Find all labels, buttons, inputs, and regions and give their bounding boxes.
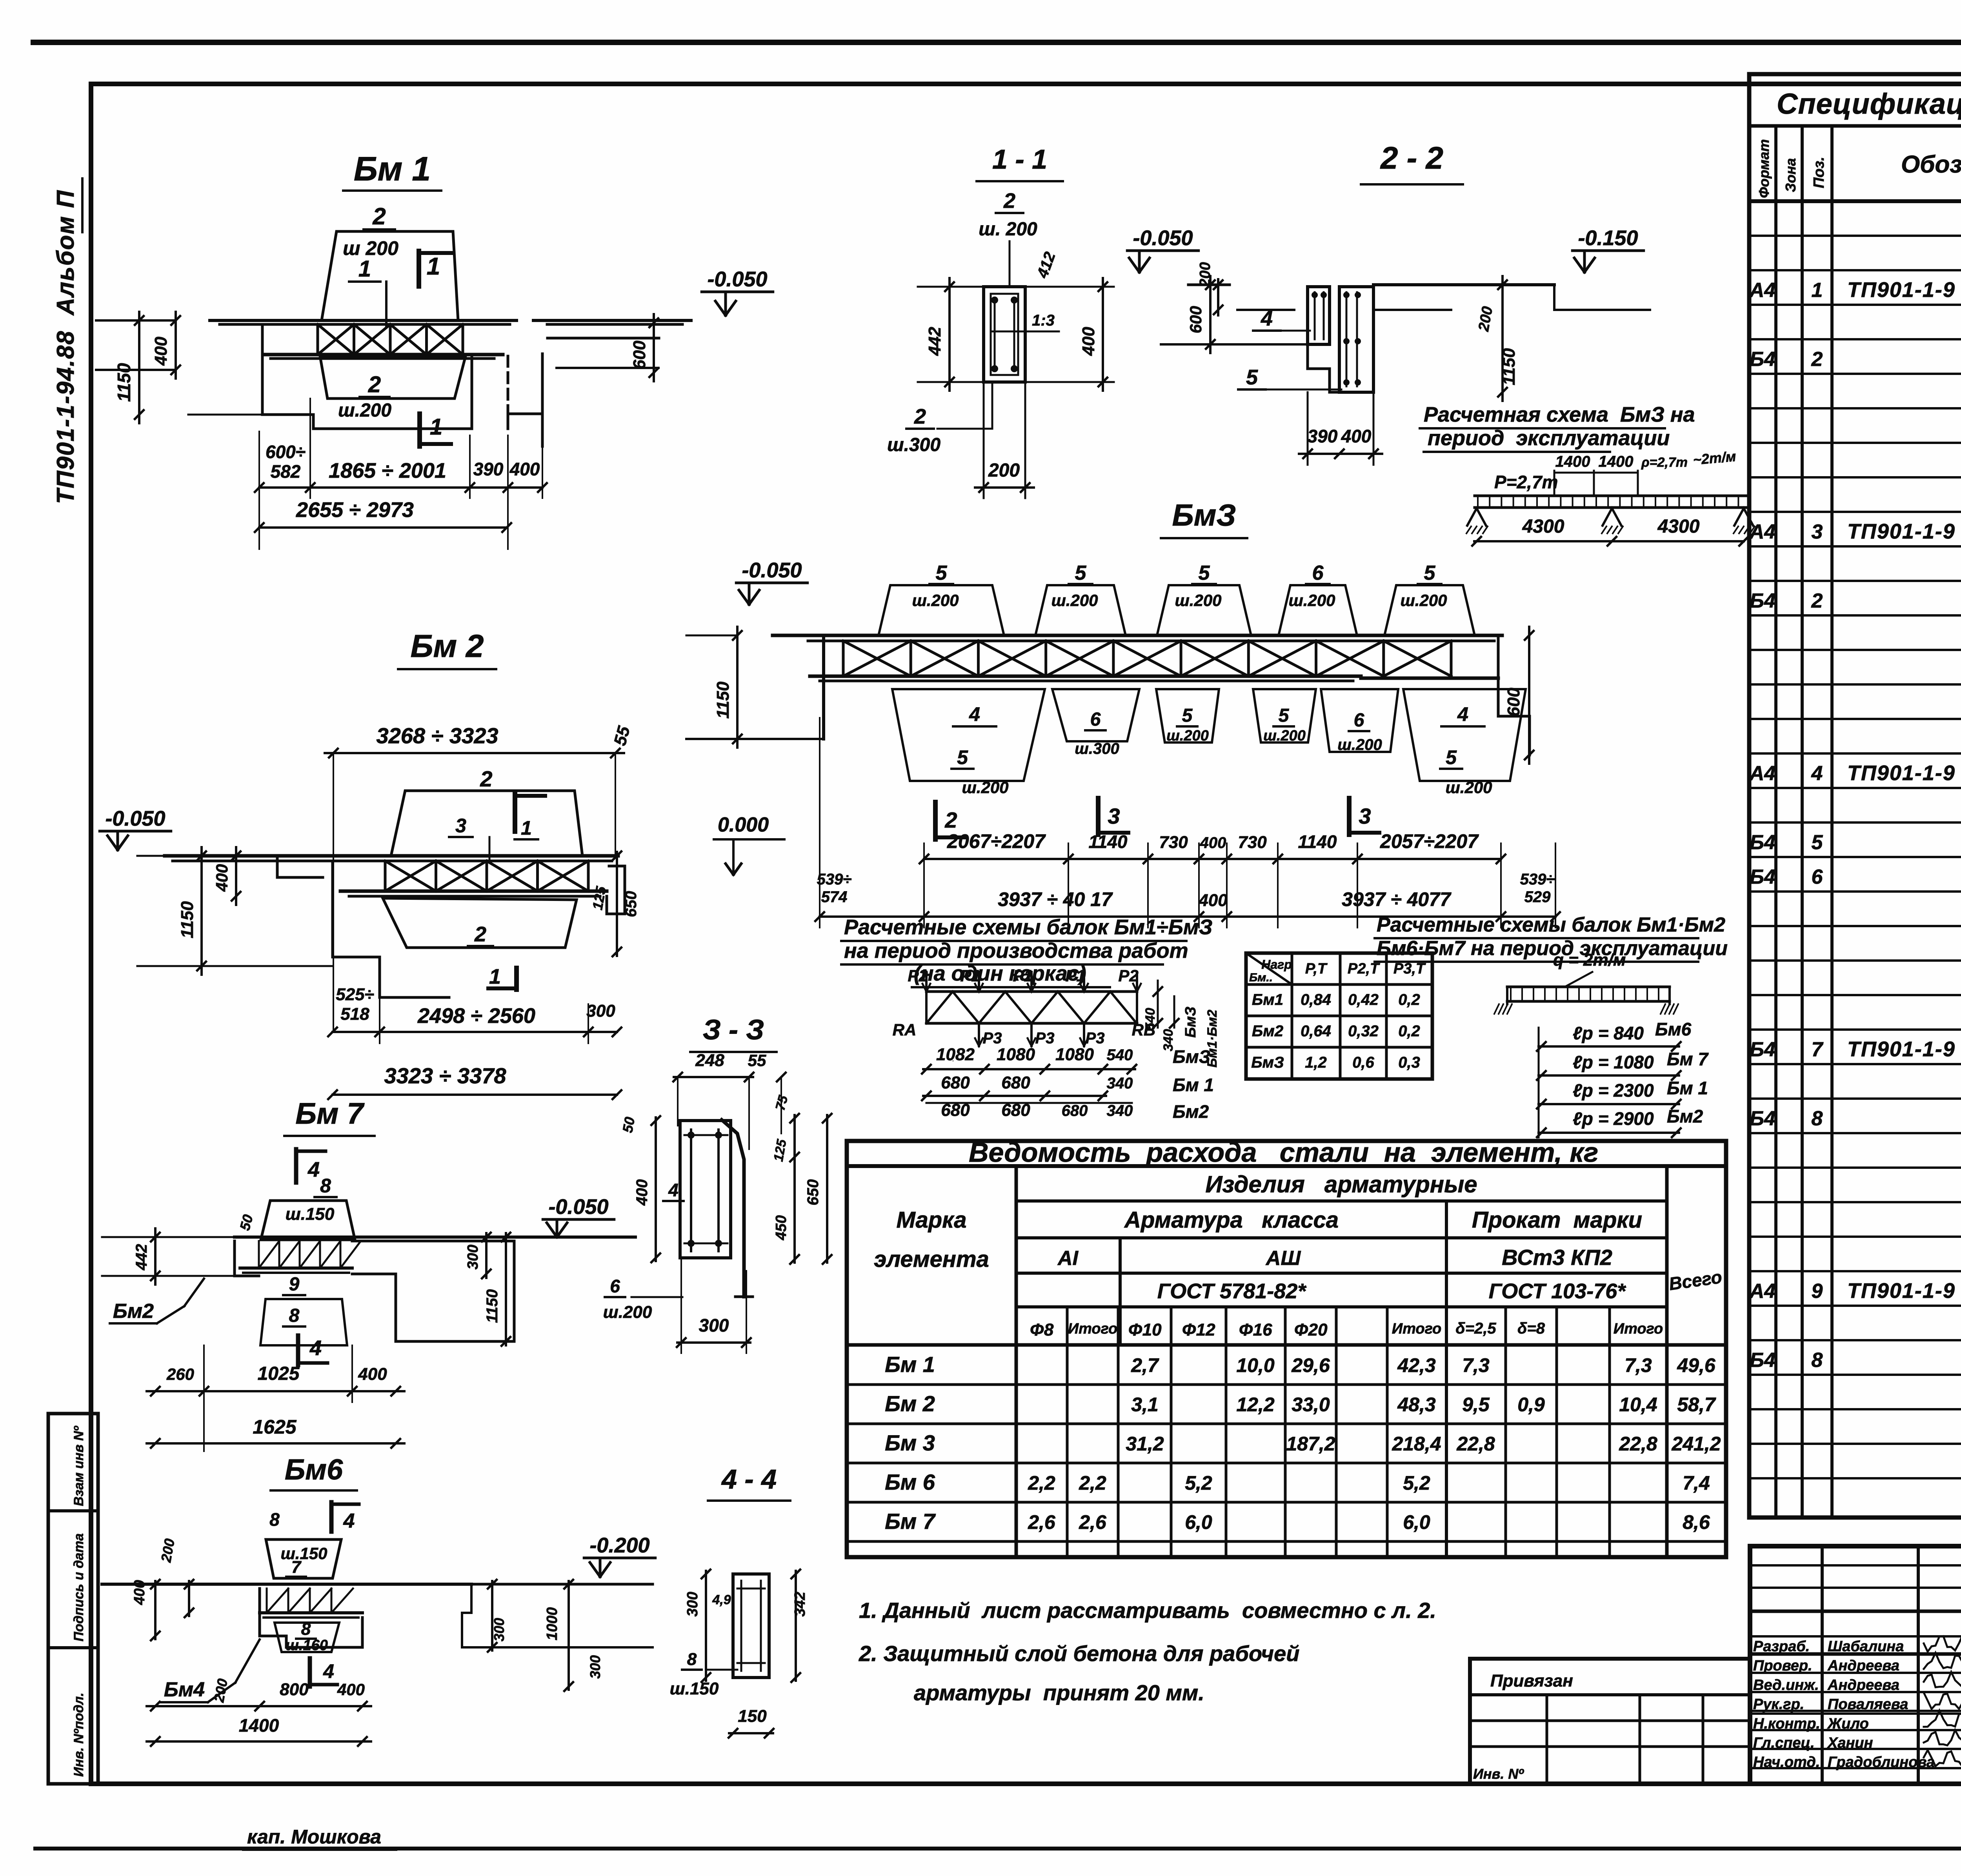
svg-text:Р2: Р2 (908, 966, 928, 985)
svg-text:Б4: Б4 (1750, 831, 1775, 854)
svg-text:4: 4 (1457, 703, 1468, 725)
svg-text:125: 125 (771, 1138, 789, 1163)
svg-text:6: 6 (610, 1276, 620, 1296)
svg-text:2: 2 (1811, 348, 1823, 371)
svg-text:5: 5 (1182, 705, 1193, 726)
svg-text:Градоблинова: Градоблинова (1828, 1754, 1935, 1770)
svg-text:Формат: Формат (1756, 139, 1772, 198)
svg-text:49,6: 49,6 (1677, 1354, 1716, 1376)
section 1-1 dim 442 left (948, 278, 951, 391)
svg-text:Бм 1: Бм 1 (885, 1352, 935, 1377)
svg-text:ВСт3 КП2: ВСт3 КП2 (1502, 1245, 1612, 1270)
svg-text:ℓр = 2900: ℓр = 2900 (1573, 1108, 1654, 1129)
section 3-3 top dims (674, 1076, 753, 1078)
svg-text:340: 340 (1107, 1075, 1133, 1092)
Бм7 right slab (352, 1240, 514, 1243)
svg-text:Бм 1: Бм 1 (1667, 1078, 1708, 1098)
specification header bottom line (1749, 199, 1961, 203)
section 3-3 bottom dim 300 (677, 1341, 750, 1344)
Бм2 top dim 3268-3323 (325, 752, 624, 754)
svg-text:Бм6: Бм6 (285, 1453, 343, 1486)
svg-text:42,3: 42,3 (1397, 1354, 1436, 1376)
svg-text:200: 200 (158, 1538, 178, 1564)
svg-text:400: 400 (1079, 327, 1098, 356)
svg-text:241,2: 241,2 (1671, 1433, 1721, 1455)
section 3-3 rect outline (680, 1121, 731, 1258)
svg-text:Ведомость расхода стали на: Ведомость расхода стали на элемент, кг (969, 1137, 1598, 1168)
Бм3 lower callout 5 sh200 left-mid (1156, 689, 1219, 742)
svg-text:ТП901-1-9 82-КЖИ1-С4: ТП901-1-9 82-КЖИ1-С4 (1847, 278, 1961, 302)
Бм2 lower callout trapezoid (383, 898, 577, 948)
svg-text:3268 ÷ 3323: 3268 ÷ 3323 (376, 723, 498, 748)
svg-text:342: 342 (792, 1592, 808, 1616)
svg-text:5: 5 (1246, 366, 1258, 389)
svg-text:400: 400 (358, 1365, 387, 1384)
specification table title row line (1749, 124, 1961, 128)
svg-text:1625: 1625 (253, 1416, 297, 1438)
svg-text:Бм 1: Бм 1 (354, 150, 431, 188)
svg-text:1,2: 1,2 (1305, 1054, 1327, 1071)
svg-text:Андреева: Андреева (1827, 1677, 1899, 1693)
svg-text:Шабалина: Шабалина (1828, 1638, 1904, 1655)
Бм2 truss diagonals (385, 861, 436, 891)
svg-text:-0.050: -0.050 (707, 267, 767, 291)
svg-text:2 - 2: 2 - 2 (1380, 140, 1443, 175)
section 2-2 right dims 200 1150 (1501, 276, 1504, 401)
svg-text:Бм6: Бм6 (1655, 1019, 1692, 1039)
svg-text:Н.контр.: Н.контр. (1753, 1716, 1820, 1732)
svg-text:Р2: Р2 (1118, 966, 1138, 985)
svg-text:1: 1 (489, 965, 501, 988)
svg-text:10,0: 10,0 (1236, 1354, 1275, 1376)
svg-text:Р2,Т: Р2,Т (1348, 961, 1380, 977)
svg-text:~2т/м: ~2т/м (1692, 448, 1737, 468)
Бм7 small truss bars (258, 1241, 260, 1268)
svg-text:Взам инв Nº: Взам инв Nº (71, 1426, 86, 1506)
load table column lines (1291, 953, 1293, 1079)
svg-text:А4: А4 (1749, 279, 1776, 302)
svg-text:Бм6·Бм7 на период эксплуатации: Бм6·Бм7 на период эксплуатации (1377, 937, 1728, 960)
svg-text:5: 5 (1075, 562, 1087, 584)
svg-text:Всего: Всего (1668, 1266, 1723, 1294)
svg-text:600÷: 600÷ (266, 442, 306, 462)
section 2-2 columns outline (1308, 287, 1330, 344)
svg-text:ТП901-1-9 88-КЖИ1-С8: ТП901-1-9 88-КЖИ1-С8 (1847, 1279, 1961, 1303)
svg-text:300: 300 (586, 1001, 615, 1021)
svg-text:3: 3 (1359, 804, 1371, 828)
Бм6 small truss bars (266, 1589, 268, 1613)
svg-text:Φ12: Φ12 (1182, 1320, 1215, 1339)
svg-text:3937 ÷ 40 17: 3937 ÷ 40 17 (998, 888, 1113, 910)
svg-text:22,8: 22,8 (1619, 1433, 1657, 1455)
svg-text:442: 442 (925, 327, 944, 356)
svg-text:Итого: Итого (1392, 1321, 1441, 1337)
Бм1 section mark 1 bottom (417, 414, 422, 446)
svg-text:Р3: Р3 (1035, 1030, 1055, 1047)
svg-text:3: 3 (1108, 804, 1120, 828)
svg-text:(на один каркас): (на один каркас) (914, 962, 1086, 985)
svg-text:600: 600 (1504, 688, 1523, 717)
svg-text:ℓр = 1080: ℓр = 1080 (1573, 1052, 1654, 1072)
svg-text:Φ8: Φ8 (1030, 1320, 1054, 1339)
svg-text:ш.200: ш.200 (1175, 591, 1221, 610)
svg-text:539÷: 539÷ (1520, 871, 1555, 888)
svg-text:8,6: 8,6 (1683, 1511, 1710, 1533)
Бм1 left dim 1150 (138, 312, 140, 423)
svg-text:Р3: Р3 (983, 1030, 1002, 1047)
svg-text:800: 800 (280, 1680, 309, 1699)
svg-text:на период производства работ: на период производства работ (844, 939, 1188, 963)
svg-text:6: 6 (1812, 866, 1823, 888)
svg-text:400: 400 (1200, 834, 1226, 852)
svg-text:БмЗ: БмЗ (1173, 1046, 1210, 1067)
svg-text:А4: А4 (1749, 762, 1776, 785)
Бм2 right end outline (607, 866, 625, 914)
svg-text:БмЗ: БмЗ (1172, 498, 1236, 532)
svg-text:33,0: 33,0 (1292, 1394, 1330, 1416)
svg-text:8: 8 (269, 1509, 280, 1530)
svg-text:кап. Мошкова: кап. Мошкова (247, 1826, 381, 1848)
svg-text:5,2: 5,2 (1403, 1472, 1430, 1494)
svg-text:9,5: 9,5 (1462, 1394, 1490, 1416)
svg-text:Р1: Р1 (1065, 966, 1085, 985)
svg-text:2: 2 (368, 372, 381, 397)
section 4-4 rect outline (733, 1574, 769, 1678)
svg-text:4: 4 (969, 703, 980, 725)
svg-text:Р,Т: Р,Т (1305, 961, 1328, 977)
privyazan sub-table lines (1470, 1693, 1750, 1696)
svg-text:540: 540 (1107, 1046, 1133, 1064)
svg-text:4,9: 4,9 (712, 1592, 731, 1607)
svg-text:ш.200: ш.200 (1263, 728, 1306, 744)
svg-text:1080: 1080 (997, 1045, 1035, 1064)
svg-text:4: 4 (1811, 762, 1823, 785)
Бм1 slab top lines (210, 319, 517, 322)
svg-text:Бм 7: Бм 7 (885, 1509, 936, 1534)
Бм1 bottom overall dim 2655-2973 (259, 526, 507, 529)
Бм1 pit right outline (508, 414, 542, 429)
specification row grid lines (1749, 235, 1961, 237)
svg-text:4: 4 (1261, 307, 1273, 330)
svg-text:1400: 1400 (239, 1715, 279, 1736)
bottom-left stamp column table (48, 1414, 98, 1784)
svg-text:6,0: 6,0 (1185, 1511, 1212, 1533)
Бм6 upper callout trapezoid (266, 1539, 341, 1578)
Бм3 bottom dims row 1 (924, 858, 1501, 860)
Бм6 section outline (260, 1589, 362, 1647)
svg-text:-0.200: -0.200 (589, 1534, 649, 1557)
svg-text:6: 6 (1354, 710, 1364, 731)
svg-text:ш.200: ш.200 (1445, 778, 1492, 797)
Бм3 lower callout big right with pos 4 and 5 (1403, 689, 1526, 781)
Бм1 upper callout trapezoid (322, 231, 458, 320)
Бм6 right slab (462, 1584, 653, 1647)
section 2-2 dim 600 left (1209, 276, 1212, 353)
calc truss load arrows top (925, 972, 928, 992)
svg-text:Бм1: Бм1 (1252, 991, 1283, 1008)
svg-text:730: 730 (1238, 833, 1267, 852)
svg-text:55: 55 (748, 1051, 766, 1070)
svg-text:2498 ÷ 2560: 2498 ÷ 2560 (417, 1004, 535, 1028)
svg-text:8: 8 (1812, 1349, 1823, 1372)
section 2-2 dim 200 top (1217, 279, 1219, 315)
svg-text:1400: 1400 (1599, 453, 1634, 470)
svg-text:582: 582 (271, 461, 301, 482)
calc truss bottom loads (978, 1023, 980, 1046)
svg-text:Изделия арматурные: Изделия арматурные (1205, 1171, 1477, 1197)
svg-text:Марка: Марка (896, 1207, 966, 1233)
svg-text:ТП901-1-9 88-КЖИ1-С6: ТП901-1-9 88-КЖИ1-С6 (1847, 761, 1961, 785)
svg-text:-0.050: -0.050 (105, 807, 165, 830)
Бм7 dim 1150 right (505, 1233, 507, 1345)
svg-text:ш. 200: ш. 200 (979, 219, 1037, 240)
svg-text:0,84: 0,84 (1301, 991, 1331, 1008)
Бм3 lower callout 6 sh200 right (1321, 689, 1398, 752)
svg-text:9: 9 (289, 1274, 300, 1295)
svg-text:Бм 7: Бм 7 (295, 1097, 365, 1130)
svg-text:ш.200: ш.200 (962, 778, 1008, 797)
svg-text:1400: 1400 (1555, 453, 1590, 470)
svg-text:187,2: 187,2 (1286, 1433, 1335, 1455)
svg-text:442: 442 (133, 1244, 150, 1271)
title block outer box (1750, 1546, 1961, 1784)
svg-text:ш.150: ш.150 (670, 1679, 719, 1698)
svg-text:ш.200: ш.200 (603, 1303, 652, 1322)
Бм1 left dim 400 (175, 312, 177, 378)
svg-text:2: 2 (372, 203, 386, 229)
svg-text:Поз.: Поз. (1811, 157, 1827, 189)
svg-text:2,2: 2,2 (1079, 1472, 1106, 1494)
svg-text:300: 300 (465, 1245, 481, 1269)
svg-text:Поваляева: Поваляева (1828, 1696, 1908, 1713)
svg-text:Жило: Жило (1827, 1716, 1869, 1732)
svg-text:31,2: 31,2 (1126, 1433, 1164, 1455)
svg-text:75: 75 (773, 1094, 791, 1112)
svg-text:Бм 6: Бм 6 (885, 1470, 935, 1494)
Бм3 dims extension lines (819, 843, 820, 928)
calc scheme Бм3 span dims (1474, 540, 1614, 542)
svg-text:400: 400 (1341, 426, 1372, 446)
svg-text:4300: 4300 (1522, 516, 1564, 537)
svg-text:5: 5 (1424, 562, 1436, 584)
svg-text:9: 9 (1812, 1280, 1823, 1303)
svg-text:300: 300 (699, 1315, 729, 1336)
svg-text:3: 3 (1812, 520, 1823, 543)
svg-text:Итого: Итого (1614, 1321, 1663, 1337)
svg-text:Провер.: Провер. (1753, 1658, 1812, 1674)
svg-text:58,7: 58,7 (1677, 1394, 1716, 1416)
svg-text:1082: 1082 (936, 1045, 975, 1064)
svg-text:390: 390 (1308, 426, 1338, 446)
svg-text:Спецификация к балкам Бм1÷БмЗ: Спецификация к балкам Бм1÷БмЗ;Бм6;Бм7 (1777, 87, 1961, 120)
svg-text:Нагр: Нагр (1261, 957, 1292, 972)
svg-text:1140: 1140 (1089, 832, 1128, 852)
svg-text:Нач.отд.: Нач.отд. (1753, 1754, 1820, 1770)
svg-text:650: 650 (622, 891, 640, 917)
Бм7 upper callout trapezoid (261, 1201, 355, 1240)
svg-text:арматуры принят 20 мм.: арматуры принят 20 мм. (914, 1680, 1204, 1705)
svg-text:Р3: Р3 (1086, 1030, 1105, 1047)
load table diagonal header (1246, 953, 1292, 984)
svg-text:2,6: 2,6 (1079, 1511, 1107, 1533)
svg-text:3937 ÷ 4077: 3937 ÷ 4077 (1342, 888, 1452, 910)
svg-text:1000: 1000 (544, 1607, 560, 1641)
svg-text:1. Данный лист рассматривать: 1. Данный лист рассматривать совместно с… (859, 1598, 1436, 1623)
Бм1 lower callout trapezoid (320, 356, 466, 398)
svg-text:ТП901-1-9 88-КЖИ1-С7: ТП901-1-9 88-КЖИ1-С7 (1847, 1037, 1961, 1061)
svg-text:Гл.спец.: Гл.спец. (1753, 1735, 1815, 1751)
svg-text:8: 8 (320, 1175, 331, 1197)
svg-text:8: 8 (1812, 1107, 1823, 1130)
svg-text:Б4: Б4 (1750, 348, 1775, 371)
svg-text:390: 390 (473, 459, 504, 479)
svg-text:1865 ÷ 2001: 1865 ÷ 2001 (329, 459, 446, 482)
Бм3 upper callouts (879, 585, 1004, 635)
section 1-1 dim 400 right (1102, 278, 1104, 391)
svg-text:1150: 1150 (1499, 348, 1519, 385)
Бм7 beam body (235, 1236, 635, 1239)
vedomost table outer box (847, 1141, 1726, 1557)
svg-text:8: 8 (687, 1650, 697, 1669)
sheet bottom edge line (35, 1847, 1961, 1851)
Бм3 bottom dims row 2 (820, 915, 1555, 918)
title block vertical lines (1821, 1546, 1824, 1784)
Бм3 right dim 600 (1528, 627, 1530, 764)
svg-text:период эксплуатации: период эксплуатации (1428, 426, 1670, 450)
section 4-4 dims (705, 1571, 707, 1681)
Бм3 lower callout 6 sh300 left (1052, 689, 1139, 741)
svg-text:АШ: АШ (1265, 1247, 1301, 1270)
svg-text:Инв. Nº: Инв. Nº (1473, 1766, 1524, 1782)
Бм3 right end outline (1498, 635, 1530, 755)
section 2-2 step outline (1308, 344, 1373, 392)
svg-text:-0.150: -0.150 (1578, 226, 1638, 250)
section 4-4 rebar (740, 1581, 742, 1671)
svg-text:4: 4 (307, 1158, 320, 1181)
svg-text:Бм2: Бм2 (1173, 1101, 1209, 1122)
Бм3 left end vertical (822, 635, 825, 739)
svg-text:2: 2 (474, 923, 486, 946)
svg-text:Инв. Nºподл.: Инв. Nºподл. (71, 1692, 86, 1777)
svg-text:Б4: Б4 (1750, 1107, 1775, 1130)
Бм7 dim 442 left (154, 1228, 156, 1285)
svg-text:218,4: 218,4 (1392, 1433, 1441, 1455)
svg-text:5,2: 5,2 (1185, 1472, 1212, 1494)
svg-text:7: 7 (1812, 1038, 1824, 1061)
sheet top edge line (33, 40, 1961, 45)
Бм3 truss diagonals (843, 641, 911, 676)
svg-text:1150: 1150 (713, 681, 733, 719)
svg-text:ш.200: ш.200 (1337, 736, 1382, 753)
svg-text:0,64: 0,64 (1301, 1023, 1331, 1040)
svg-text:7,3: 7,3 (1624, 1354, 1652, 1376)
svg-text:600: 600 (630, 340, 649, 369)
svg-text:412: 412 (1033, 250, 1059, 281)
section 2-2 rebar in columns (1314, 292, 1316, 339)
svg-text:2,7: 2,7 (1131, 1354, 1159, 1376)
svg-text:ш.200: ш.200 (338, 400, 391, 421)
svg-text:1 - 1: 1 - 1 (992, 144, 1047, 175)
svg-text:А4: А4 (1749, 1280, 1776, 1303)
svg-text:Бм2: Бм2 (1667, 1106, 1703, 1126)
svg-text:200: 200 (211, 1678, 231, 1704)
svg-text:-0.050: -0.050 (742, 559, 802, 582)
Бм3 bottom chord line (810, 675, 1361, 678)
svg-text:Бм 2: Бм 2 (885, 1391, 935, 1416)
svg-text:Бм2: Бм2 (113, 1300, 154, 1323)
svg-text:300: 300 (587, 1655, 603, 1679)
svg-text:4: 4 (323, 1660, 334, 1682)
Бм2 upper callout trapezoid (391, 791, 582, 856)
Бм2 bottom dim row 1 (333, 1031, 617, 1033)
Бм1 right wall outline (541, 319, 667, 322)
svg-text:0,6: 0,6 (1352, 1054, 1374, 1071)
section 2-2 right slab (1373, 283, 1554, 286)
svg-text:574: 574 (821, 888, 848, 906)
exploitation beam hatched (1507, 986, 1670, 988)
calc truss bottom chord (926, 1022, 1137, 1025)
svg-text:200: 200 (1475, 305, 1496, 333)
svg-text:Рук.гр.: Рук.гр. (1753, 1696, 1804, 1713)
svg-text:-0.050: -0.050 (1133, 226, 1193, 250)
Бм1 right dim 600 (653, 314, 655, 381)
svg-text:529: 529 (1524, 888, 1551, 906)
Бм7 dim 300 right (485, 1233, 488, 1278)
svg-text:2: 2 (1003, 189, 1015, 213)
svg-text:Прокат марки: Прокат марки (1472, 1207, 1642, 1233)
svg-text:Б4: Б4 (1750, 866, 1775, 888)
svg-text:2: 2 (480, 766, 492, 791)
svg-text:Φ20: Φ20 (1294, 1320, 1328, 1339)
calc truss dim row 1080s (923, 1068, 1135, 1070)
svg-text:300: 300 (684, 1592, 701, 1616)
svg-text:ш.200: ш.200 (1288, 591, 1335, 610)
svg-text:2,6: 2,6 (1028, 1511, 1056, 1533)
svg-text:Бм..: Бм.. (1249, 971, 1273, 984)
svg-text:8: 8 (301, 1619, 311, 1639)
svg-text:1:3: 1:3 (1032, 312, 1055, 329)
svg-text:1150: 1150 (484, 1289, 501, 1323)
svg-text:δ=2,5: δ=2,5 (1455, 1320, 1496, 1337)
svg-text:50: 50 (236, 1213, 256, 1232)
svg-text:2,2: 2,2 (1028, 1472, 1055, 1494)
Бм1 section mark 1 top (417, 251, 421, 286)
Бм1 truss bottom chord (263, 353, 503, 357)
svg-text:6: 6 (1090, 709, 1101, 730)
svg-text:1140: 1140 (1298, 832, 1337, 852)
svg-text:22,8: 22,8 (1456, 1433, 1495, 1455)
section 1-1 column outline (984, 287, 1025, 382)
calc truss top chord (926, 990, 1137, 993)
svg-text:Обозначение: Обозначение (1901, 151, 1961, 178)
svg-text:12,2: 12,2 (1236, 1394, 1275, 1416)
Бм2 left dims 400 1150 (235, 847, 237, 905)
section 3-3 bent bar hook (722, 1120, 744, 1297)
svg-text:2: 2 (914, 405, 926, 428)
Бм3 left dim 1150 (736, 627, 739, 748)
svg-text:ш.300: ш.300 (887, 435, 940, 455)
svg-text:248: 248 (695, 1051, 724, 1070)
Бм6 lower callout (275, 1623, 339, 1652)
section 4-4 bottom dim 150 (729, 1732, 773, 1734)
svg-text:0.000: 0.000 (718, 813, 769, 836)
svg-text:БмЗ: БмЗ (1251, 1054, 1284, 1071)
calc truss diagonals (926, 992, 953, 1023)
svg-text:3: 3 (455, 815, 466, 837)
svg-text:Бм4: Бм4 (164, 1678, 205, 1701)
svg-text:1: 1 (358, 256, 371, 282)
svg-text:Подпись и дата: Подпись и дата (71, 1533, 86, 1641)
